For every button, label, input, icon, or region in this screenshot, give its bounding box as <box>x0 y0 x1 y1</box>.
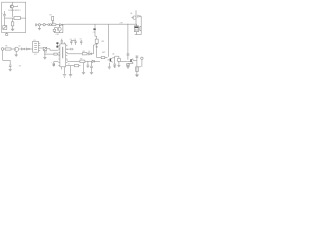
svg-text:CF1: CF1 <box>101 41 104 43</box>
wire Q3 to D3 <box>19 48 22 50</box>
capacitor C6 <box>80 40 82 45</box>
resistor R8 <box>82 53 87 55</box>
svg-text:5V: 5V <box>19 66 22 68</box>
capacitor C5 <box>71 40 77 45</box>
wire Q5 collector right <box>127 59 137 67</box>
capacitor C8 polarized (left of U2) <box>56 42 58 47</box>
U2 pins bottom <box>62 67 65 74</box>
ground below R11 <box>117 65 120 67</box>
speaker SP1 cone <box>139 26 141 31</box>
diode D3 <box>22 48 27 50</box>
transistor Q3 <box>14 47 18 51</box>
wire supply drop x127.9 <box>127 24 129 60</box>
capacitor C11 (small, x87.9) <box>87 61 90 68</box>
IC U2 (main) <box>60 44 66 67</box>
power supply enclosure box <box>2 2 26 32</box>
svg-text:U1: U1 <box>33 40 35 42</box>
resistor R4 on rail <box>52 24 59 26</box>
transistor Q2 (oscillator) <box>57 25 61 31</box>
diode D5 <box>87 45 96 55</box>
capacitor C13 dots <box>96 45 98 48</box>
svg-text:Q4: Q4 <box>112 54 114 56</box>
capacitor C7 (bottom left) <box>9 65 12 69</box>
svg-text:+: + <box>51 62 52 64</box>
transistor Q6 <box>131 16 136 19</box>
wire VR1 to U2 <box>47 49 59 50</box>
svg-text:9: 9 <box>67 45 68 47</box>
U2 pins top <box>62 42 64 44</box>
svg-text:14: 14 <box>68 63 70 65</box>
ground below Q5 <box>126 67 129 69</box>
svg-text:VOL: VOL <box>44 51 47 53</box>
diode D4 <box>27 48 33 50</box>
transformer T1 <box>134 24 138 32</box>
junction node A <box>56 23 59 26</box>
ground in PSU <box>11 26 14 31</box>
wire detector bus <box>97 57 102 59</box>
capacitor C9 polarized (below-left of U2) <box>51 62 58 67</box>
capacitor C15 on drop <box>127 54 130 55</box>
IC U1 (left) <box>33 41 39 52</box>
ground bottom left <box>9 69 12 71</box>
resistor R12 (vertical output) <box>136 67 139 71</box>
microphone jack circle (far left) <box>1 48 5 51</box>
resistor R10 <box>101 57 107 59</box>
ground below VR1 <box>43 57 46 59</box>
U2 pins right <box>66 46 68 66</box>
wire Q1 emitter down <box>12 8 14 17</box>
wire main supply rail <box>65 23 138 25</box>
wire lower left bus <box>44 53 54 55</box>
ground x83.5 <box>82 63 85 75</box>
resistor R9 <box>80 60 92 62</box>
connector socket CN1 <box>38 24 40 29</box>
label U2 internal <box>62 47 63 59</box>
connector pair CN2 <box>48 24 52 26</box>
wire Q4 collector right <box>113 56 115 64</box>
battery output plug below box <box>6 33 8 36</box>
wire Q4 emitter and ground <box>108 63 111 69</box>
svg-text:Q1: Q1 <box>18 46 20 48</box>
ground below U2 pin <box>63 75 66 78</box>
capacitor C1 (left column) <box>2 11 6 18</box>
wire right edge down <box>140 16 142 34</box>
svg-text:R5: R5 <box>5 46 7 48</box>
pin number labels U2 right <box>66 45 69 66</box>
ground below Q3 <box>15 51 18 56</box>
junction node C <box>86 60 89 63</box>
resistor R6 <box>54 53 60 55</box>
wire Q1 top stub <box>12 2 14 5</box>
diode D6 <box>92 60 100 62</box>
resistor R3 (vertical above rail) <box>52 16 54 23</box>
transistor Q1 <box>10 5 13 8</box>
crystal X1 <box>53 28 57 32</box>
svg-text:10: 10 <box>66 49 68 51</box>
ground below R12 <box>135 75 139 77</box>
capacitor C14 small with ground <box>113 64 116 68</box>
ceramic filter F1 <box>95 36 98 48</box>
wire transformer bottom <box>135 32 142 35</box>
pin number labels U2 left <box>59 49 60 59</box>
wire output vertical x136.9 <box>136 56 138 77</box>
transistor Q4 <box>108 58 113 63</box>
junction rail node <box>127 23 130 26</box>
wire oscillator loop <box>54 24 63 32</box>
capacitor C4 <box>70 40 72 45</box>
svg-text:+: + <box>2 13 3 15</box>
capacitor C3 (above U2 pin) <box>61 39 63 44</box>
wire U1 pins right <box>39 43 42 50</box>
resistor R11 (vertical) <box>118 58 121 65</box>
power plug P1 <box>35 24 38 27</box>
svg-text:IC1: IC1 <box>34 54 37 56</box>
junction node B <box>29 48 32 51</box>
wire and ground x70.5 <box>69 66 72 77</box>
input jack J1 <box>41 24 48 26</box>
capacitor C10 with ground <box>90 61 93 74</box>
wire filter down to detector <box>96 48 98 57</box>
wire supply drop x108.3 <box>107 24 109 57</box>
svg-text:13: 13 <box>66 60 68 62</box>
resistor R7 (below right of U2) <box>67 65 80 67</box>
resistor R1 <box>14 17 20 20</box>
wire R11 to Q5 base <box>120 61 127 63</box>
electrolytic cap C12 on supply drop <box>93 24 96 36</box>
svg-text:POWER SUPPLY: POWER SUPPLY <box>8 10 21 12</box>
diode D2 on rail <box>60 24 65 26</box>
capacitor C16 <box>136 56 139 57</box>
resistor R5 <box>5 48 14 50</box>
diode D7 <box>138 15 142 17</box>
diode D1 (bottom-left) <box>3 18 7 29</box>
wire horizontal bus in PSU <box>5 17 26 19</box>
svg-text:DET: DET <box>102 52 105 54</box>
ground below CN1 <box>38 28 41 30</box>
svg-text:5: 5 <box>59 56 60 58</box>
capacitor C18 (U2 right pin) <box>67 48 73 50</box>
U2 pins left <box>58 46 60 66</box>
svg-text:OSC: OSC <box>56 34 60 36</box>
resistor R2 (vertical) <box>11 18 13 26</box>
wire U2 out upper <box>67 53 82 55</box>
svg-text:Q6: Q6 <box>130 13 132 15</box>
wire supply drop x136 (top right) <box>135 10 137 24</box>
wire top link <box>115 56 119 58</box>
potentiometer VR1 <box>41 47 47 57</box>
wire jack shield down <box>3 50 11 65</box>
wire U2 out lower <box>67 60 80 62</box>
svg-text:C9: C9 <box>93 32 95 34</box>
wire Q1 collector right <box>14 6 18 7</box>
transistor Q5 <box>128 59 133 63</box>
output jack J2 <box>137 57 143 67</box>
